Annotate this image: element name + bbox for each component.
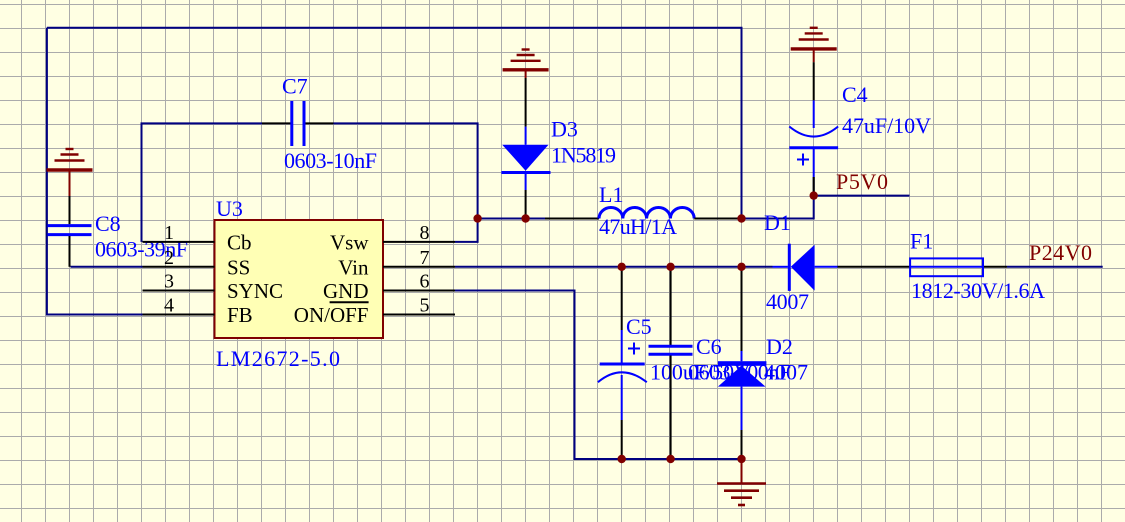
diode D1 4007 — [773, 244, 838, 291]
svg-text:U3: U3 — [216, 196, 243, 221]
svg-text:5: 5 — [420, 295, 430, 317]
wire F1 to P24V0 — [983, 266, 1007, 268]
svg-text:ON/OFF: ON/OFF — [294, 303, 369, 327]
inductor L1 — [545, 208, 739, 219]
junction D2/Vin — [737, 263, 745, 271]
pin 6 GND — [383, 290, 455, 292]
svg-text:P5V0: P5V0 — [836, 169, 888, 194]
capacitor C8 — [48, 196, 92, 267]
capacitor C4 polarized — [789, 62, 838, 195]
capacitor C6 — [649, 267, 693, 459]
svg-text:2: 2 — [164, 247, 174, 269]
svg-text:1812-30V/1.6A: 1812-30V/1.6A — [911, 278, 1045, 303]
pin 8 Vsw — [383, 241, 455, 243]
svg-text:0603-10nF: 0603-10nF — [284, 148, 377, 173]
svg-text:3: 3 — [164, 271, 174, 293]
svg-text:4007: 4007 — [766, 289, 809, 314]
capacitor C7 — [262, 101, 334, 146]
wire left rail down to FB — [47, 28, 143, 315]
wire Vin rail — [455, 266, 773, 268]
svg-text:C5: C5 — [626, 314, 652, 339]
pin 5 ON/OFF — [383, 314, 455, 316]
diode D3 1N5819 — [501, 78, 550, 219]
svg-text:C7: C7 — [282, 74, 308, 99]
svg-text:4007: 4007 — [764, 360, 808, 385]
pin 3 SYNC — [143, 290, 215, 292]
ground above C4 — [791, 28, 837, 62]
svg-text:Cb: Cb — [227, 230, 252, 254]
pin 2 SS — [143, 266, 215, 268]
junction C5/gnd rail — [618, 455, 626, 463]
svg-text:L1: L1 — [599, 182, 623, 207]
junction D2/gnd rail — [737, 455, 745, 463]
junction L1 out — [737, 214, 745, 222]
wire top loop from left rail to L1 output — [47, 28, 742, 219]
svg-text:F1: F1 — [910, 229, 933, 254]
svg-text:P24V0: P24V0 — [1029, 240, 1092, 265]
svg-text:Vin: Vin — [338, 255, 369, 279]
svg-text:Vsw: Vsw — [330, 230, 369, 254]
wire C8 to SS pin — [71, 266, 143, 268]
svg-text:47uF/10V: 47uF/10V — [842, 113, 931, 138]
svg-text:FB: FB — [227, 303, 253, 327]
svg-text:4: 4 — [164, 295, 174, 317]
wire D1 to F1 — [838, 266, 911, 268]
svg-text:D3: D3 — [551, 117, 578, 142]
wire P5V0 stub — [814, 195, 910, 197]
capacitor C5 polarized — [598, 267, 647, 459]
overline over OFF — [330, 301, 369, 303]
pin 7 Vin — [383, 266, 455, 268]
ground above D3 — [503, 50, 549, 79]
junction Vsw/L1 — [473, 214, 481, 222]
svg-text:SYNC: SYNC — [227, 279, 283, 303]
wire P24V0 segment — [1007, 266, 1103, 268]
svg-text:C6: C6 — [696, 334, 722, 359]
wire Vsw node to L1 — [478, 218, 545, 220]
svg-text:C4: C4 — [842, 82, 868, 107]
pin 4 FB — [143, 314, 215, 316]
svg-text:0603-39nF: 0603-39nF — [95, 237, 188, 262]
svg-text:1N5819: 1N5819 — [551, 143, 616, 168]
svg-text:SS: SS — [227, 255, 250, 279]
junction C6/Vin — [666, 263, 674, 271]
wire GND pin to bottom rail — [455, 291, 742, 460]
svg-text:C8: C8 — [95, 211, 121, 236]
junction C6/gnd rail — [666, 455, 674, 463]
wire C7 right to pin8 vertical — [334, 123, 478, 241]
svg-text:LM2672-5.0: LM2672-5.0 — [216, 346, 340, 371]
svg-text:GND: GND — [323, 279, 369, 303]
junction D3/L1 — [521, 214, 529, 222]
pin 1 Cb — [143, 241, 215, 243]
svg-text:D2: D2 — [766, 334, 793, 359]
diode D2 TVS — [718, 267, 767, 459]
svg-text:7: 7 — [420, 247, 430, 269]
fuse F1 — [910, 258, 983, 276]
svg-text:8: 8 — [420, 222, 430, 244]
ground bottom rail — [717, 459, 766, 505]
wire L1 right to C4 riser — [739, 196, 814, 219]
svg-text:6: 6 — [420, 271, 430, 293]
IC U3 LM2672 body — [215, 220, 384, 338]
wire C7 net left vertical to pin1 — [142, 123, 263, 241]
junction C5/Vin — [618, 263, 626, 271]
wire C4 riser to P5V0 junction — [813, 177, 815, 196]
junction P5V0 — [810, 191, 818, 199]
svg-text:47uH/1A: 47uH/1A — [599, 214, 677, 239]
ground above C8 — [47, 149, 93, 196]
svg-text:1: 1 — [164, 222, 174, 244]
svg-text:D1: D1 — [764, 210, 791, 235]
